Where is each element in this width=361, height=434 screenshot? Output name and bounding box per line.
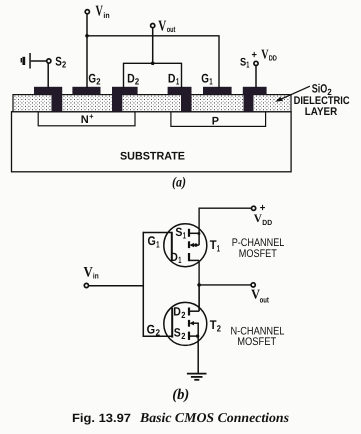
substrate <box>12 112 292 172</box>
electrode D2 (cap + plug) <box>112 72 139 112</box>
wire S1 down <box>255 66 257 88</box>
svg-text:DD: DD <box>262 218 272 227</box>
svg-text:D: D <box>173 305 181 319</box>
svg-text:LAYER: LAYER <box>305 106 337 118</box>
svg-text:(b): (b) <box>172 387 189 403</box>
T1 body-source junction dot <box>194 243 197 246</box>
T2 body arrow <box>191 322 199 324</box>
wire T1 drain down through Vout junction to T2 drain <box>198 260 200 311</box>
svg-text:Basic CMOS Connections: Basic CMOS Connections <box>139 410 289 425</box>
SiO2 dielectric layer (oxide strip) <box>13 95 291 112</box>
wire T2 drain up to Vout junction <box>198 285 200 311</box>
svg-text:2: 2 <box>62 59 66 69</box>
T2 channel segments <box>188 308 190 316</box>
svg-text:S: S <box>174 325 181 339</box>
svg-text:V: V <box>84 265 94 281</box>
svg-text:Fig. 13.97: Fig. 13.97 <box>72 411 131 425</box>
T1 body arrow <box>191 244 199 246</box>
wire Vout down <box>152 28 154 63</box>
svg-text:1: 1 <box>176 77 179 87</box>
N+ region <box>38 112 135 127</box>
svg-text:S: S <box>175 225 182 239</box>
terminal Vout <box>151 18 176 34</box>
electrode G2 (gate cap) <box>72 72 100 95</box>
svg-text:1: 1 <box>183 231 186 241</box>
electrode S2 (cap + plug) <box>34 87 62 112</box>
terminal S1 +VDD <box>240 46 277 69</box>
svg-text:G: G <box>148 234 156 248</box>
terminal S2 <box>47 54 66 69</box>
svg-text:1: 1 <box>209 77 212 87</box>
svg-text:2: 2 <box>217 324 221 334</box>
T1 gate bar <box>171 232 173 260</box>
svg-text:MOSFET: MOSFET <box>237 336 276 348</box>
svg-text:G: G <box>88 72 96 86</box>
electrode G1 (gate cap) <box>201 72 231 95</box>
T2 source lead S2 <box>189 335 199 337</box>
svg-text:DD: DD <box>269 54 278 63</box>
svg-text:D: D <box>170 250 178 264</box>
wire G2 lead <box>143 335 173 337</box>
svg-text:2: 2 <box>181 310 185 320</box>
wire bus Vin to G1 <box>87 36 219 88</box>
svg-text:MOSFET: MOSFET <box>239 248 277 260</box>
svg-text:SUBSTRATE: SUBSTRATE <box>120 150 185 162</box>
transistor T1 (P-channel MOSFET) <box>164 224 207 267</box>
svg-text:out: out <box>167 25 176 34</box>
T2 gate bar <box>171 308 173 338</box>
battery B1 <box>21 53 31 69</box>
wire bracket D2-D1 <box>124 63 182 88</box>
T1 channel segments <box>188 229 190 237</box>
svg-text:N: N <box>81 114 89 126</box>
svg-text:2: 2 <box>156 328 160 338</box>
wire Vin to gate bus <box>89 285 144 287</box>
terminal Vout (b) <box>251 283 269 305</box>
label N-CHANNEL MOSFET <box>231 325 285 348</box>
svg-text:S: S <box>55 54 62 68</box>
svg-text:G: G <box>147 322 156 336</box>
ground <box>187 374 207 380</box>
P region <box>171 112 266 128</box>
svg-text:P: P <box>212 116 219 128</box>
junction dot on Vin bus <box>85 34 89 38</box>
electrode S1 (cap + plug) <box>243 87 267 112</box>
svg-text:G: G <box>201 72 209 86</box>
svg-text:SiO: SiO <box>312 82 328 96</box>
T1 source lead S1 <box>189 232 199 234</box>
svg-text:D: D <box>127 72 135 86</box>
wire G1 lead <box>143 232 172 234</box>
svg-text:out: out <box>260 295 270 304</box>
terminal Vin <box>85 4 109 21</box>
wire T1 source to VDD rail <box>199 208 251 233</box>
svg-text:1: 1 <box>178 255 181 265</box>
terminal Vin (b) <box>84 265 99 288</box>
svg-text:in: in <box>93 272 99 281</box>
label P-CHANNEL MOSFET <box>232 237 285 260</box>
svg-text:1: 1 <box>217 243 220 253</box>
electrode D1 (cap + plug) <box>168 72 192 112</box>
svg-text:2: 2 <box>96 77 100 87</box>
terminal VDD <box>252 202 273 227</box>
svg-text:+: + <box>89 112 93 121</box>
transistor T2 (N-channel MOSFET) <box>164 302 207 345</box>
svg-text:1: 1 <box>156 240 159 250</box>
caption Fig. 13.97 Basic CMOS Connections <box>72 410 289 425</box>
svg-text:+: + <box>252 49 257 61</box>
svg-text:2: 2 <box>135 77 139 87</box>
junction dot Vout bracket <box>151 62 155 66</box>
svg-text:V: V <box>158 18 166 34</box>
wire gate bus vertical <box>142 232 144 337</box>
svg-text:V: V <box>254 213 263 225</box>
wire battery to S2 <box>31 60 47 62</box>
T2 drain lead D2 <box>189 310 199 312</box>
svg-text:(a): (a) <box>172 175 186 190</box>
svg-text:S: S <box>240 57 246 69</box>
label SiO2 dielectric layer with arrow <box>275 82 349 118</box>
svg-text:V: V <box>96 4 104 20</box>
svg-text:in: in <box>103 11 109 20</box>
T1 drain lead D1 <box>189 259 199 261</box>
svg-text:V: V <box>261 46 268 61</box>
wire Vout rail <box>199 284 251 286</box>
svg-text:+: + <box>260 202 266 214</box>
wire T2 source down to ground <box>197 336 199 374</box>
svg-text:1: 1 <box>246 60 249 70</box>
wire Vin down to G2 <box>86 14 88 88</box>
svg-text:2: 2 <box>181 331 185 341</box>
svg-text:D: D <box>168 72 176 86</box>
T2 body-source junction dot <box>196 334 199 337</box>
wire S2 down <box>47 63 49 88</box>
junction dot Vout <box>197 283 201 287</box>
